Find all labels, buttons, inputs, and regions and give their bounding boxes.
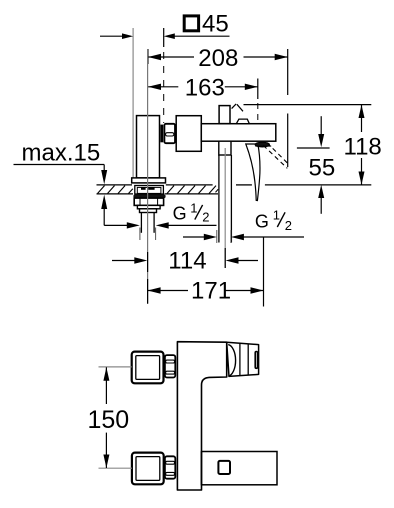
outlet pipe 2 [218, 155, 220, 243]
wall top surface line [97, 184, 133, 186]
centerline pipe 2 (gray) [224, 148, 226, 268]
escutcheon flange plate [132, 178, 166, 183]
seal washer (black band) [133, 195, 165, 199]
svg-text:118: 118 [344, 134, 382, 161]
handle stem [219, 106, 230, 124]
handle divider 2 (knob left edge) [247, 344, 249, 375]
lever pivot cover line under aerator [255, 145, 271, 147]
svg-text:163: 163 [185, 75, 225, 102]
inlet pipe 1 [140, 213, 142, 233]
svg-text:G: G [255, 211, 269, 231]
escutcheon 1 (top) [132, 352, 164, 384]
handle divider 1 [239, 343, 241, 376]
extension line left escutcheon edge (gray, x=133) [132, 28, 134, 178]
aerator outlet (dark ellipse) [255, 142, 269, 147]
lever up-position dashes [232, 104, 237, 109]
svg-text:150: 150 [88, 406, 130, 434]
nut 1 (front) [165, 355, 175, 377]
step under locknut [137, 205, 160, 208]
svg-text:208: 208 [198, 45, 238, 72]
nut shoulder (black) [160, 125, 163, 143]
svg-text:55: 55 [309, 155, 336, 182]
svg-text:max.15: max.15 [22, 139, 101, 166]
dimension square-45 leader/arrows [100, 35, 131, 37]
svg-text:45: 45 [202, 11, 229, 38]
lever (down position, solid wedge) [246, 144, 260, 201]
svg-text:G: G [173, 204, 187, 224]
wall hatching [98, 186, 219, 194]
dimension 163 [257, 79, 259, 100]
hex nut side view [164, 124, 175, 143]
spout (front) [202, 452, 278, 485]
svg-text:171: 171 [191, 278, 231, 305]
body edge over spout [201, 452, 203, 485]
centerline pipe 1 (gray, x=147.6, drawn over parts) [147, 49, 149, 304]
dimension square-45 label [184, 16, 198, 31]
escutcheon 2 (bottom) [132, 453, 164, 485]
outlet stub below body [219, 141, 231, 155]
svg-text:114: 114 [168, 247, 206, 274]
handle cup arc [228, 345, 235, 377]
dimension 208 [147, 49, 149, 64]
handle (front view) [227, 342, 259, 376]
dimension 55 [297, 147, 330, 149]
G 1/2 arrows (pipe 1) [104, 224, 127, 226]
S-union column body [137, 116, 160, 178]
knob slot [255, 352, 257, 369]
lever alternate position (dashed) [263, 145, 287, 168]
svg-text:2: 2 [202, 210, 209, 225]
locknut below wall [134, 198, 163, 205]
dimension 150 [105, 367, 107, 404]
extension line 208 lower part [287, 114, 289, 168]
G 1/2 arrows (pipe 2) [183, 236, 205, 238]
thread OD ticks pipe 2 [216, 230, 218, 243]
dimension 150 extension lines (gray) [99, 366, 132, 368]
mixer body (side view) [201, 124, 275, 142]
svg-text:1: 1 [190, 200, 197, 215]
centerline square escutcheon (dashed, x=163.7) [163, 28, 165, 47]
wall bottom line [97, 193, 134, 195]
recessed escutcheon part in wall [135, 186, 164, 195]
dimension 114 [147, 252, 149, 272]
thread collar [140, 209, 157, 213]
connector piece [176, 116, 201, 152]
dashed continuation of 163 extension [257, 103, 259, 121]
thread OD ticks pipe 1 [139, 228, 141, 241]
nut 2 (front) [165, 456, 175, 478]
front body outline [177, 342, 226, 490]
max.15 lower arrow [101, 195, 107, 209]
svg-text:2: 2 [285, 218, 292, 233]
max.15 leader [14, 164, 105, 166]
dimension 171 [147, 279, 149, 304]
handle dome [236, 119, 249, 124]
mousseur square on spout [218, 461, 230, 474]
svg-text:1: 1 [273, 208, 280, 223]
extension line top of handle (y=104.6) [244, 104, 372, 106]
dimension 118 [361, 105, 363, 132]
